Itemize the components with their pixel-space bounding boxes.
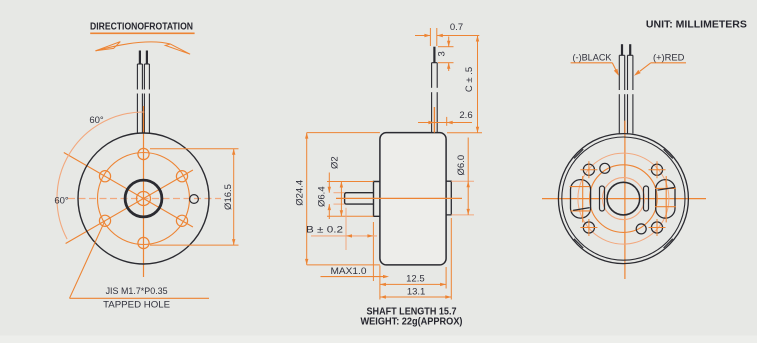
label C ± .5 [464,67,475,92]
dim B dimension line [311,234,377,237]
plain hole upper [600,163,610,173]
rear case outer circle [558,134,688,264]
dim Ø24.4 extension lines [307,133,380,265]
dim 2.6 dimension line [418,121,472,124]
dim Ø16.5 extension lines [150,149,239,245]
label 2.6 [459,110,472,121]
MAX1.0 leader line [321,275,390,278]
right oval lower bar [655,206,676,208]
label Ø16.5 [223,184,234,210]
dim 0.7 dimension line [415,34,479,37]
lead wire (side view) [432,47,438,133]
motor case outline circle (front) [78,133,209,264]
svg-text:JIS M1.7*P0.35: JIS M1.7*P0.35 [106,286,168,297]
dim 2.6 tick at case edge [446,117,448,126]
screw holes with center crosses [580,161,665,236]
dim 0.7 extension lines [430,28,436,46]
dim Ø2 extension lines [334,193,345,204]
svg-text:60°: 60° [89,115,104,126]
note shaft length [367,307,457,318]
rear hub (side view) [446,181,451,215]
svg-text:Ø2: Ø2 [330,156,341,169]
orange circle r34 (rear) [590,165,658,233]
label Ø6.0 [456,155,467,176]
note weight [361,316,463,327]
vent slot right of bearing [644,186,649,211]
dim 3 extension lines [438,47,454,63]
radial line 150-330 deg [64,153,193,228]
label 0.7 [450,22,463,33]
rim tab chords [574,149,673,248]
dim 12.5 dimension line [380,283,446,286]
horizontal centerline (rear view) [542,198,706,200]
svg-text:Ø6.4: Ø6.4 [316,186,327,207]
right oval brush wire [658,188,675,191]
left oval lower bar [571,210,591,212]
svg-text:12.5: 12.5 [406,274,425,285]
svg-text:B ± 0.2: B ± 0.2 [306,225,343,236]
dim Ø6.0 extension lines [451,181,474,215]
lead wire pair (rear view) [619,44,633,133]
svg-text:C ± .5: C ± .5 [464,67,475,92]
dim Ø6.4 extension lines [327,182,374,217]
bottom page strip [0,336,757,343]
dim Ø6.4 dimension line [340,182,343,217]
label (+)RED [653,53,685,64]
motor body (side view) [380,133,446,265]
bolt circle [98,153,190,245]
svg-text:TAPPED HOLE: TAPPED HOLE [103,300,170,311]
label 13.1 [407,287,426,298]
bottom extension lines [380,218,451,300]
svg-text:MAX1.0: MAX1.0 [331,266,367,277]
rear bearing circle [607,182,640,215]
dim 13.1 dimension line [380,295,451,298]
60-degree dimension arc [57,112,144,239]
dim Ø2 dimension line [328,173,331,220]
lead wire pair (front view) [137,51,149,134]
vertical centerline (rear view) [624,121,626,279]
label (-)BLACK [573,53,613,64]
svg-text:Ø24.4: Ø24.4 [294,180,305,206]
dim Ø16.5 dimension line [232,149,235,245]
six tapped holes on bolt circle [99,148,187,248]
svg-text:0.7: 0.7 [450,22,463,33]
right oval vertical centerline [665,176,667,222]
svg-text:WEIGHT: 22g(APPROX): WEIGHT: 22g(APPROX) [361,316,463,327]
dim C dimension line [476,36,479,133]
shaft circle [137,192,151,206]
dim Ø24.4 dimension line [305,133,308,265]
underline under direction-of-rotation title [90,32,194,34]
svg-text:3: 3 [437,51,448,56]
label Ø2 [330,156,341,169]
svg-text:2.6: 2.6 [459,110,472,121]
dim Ø6.0 dimension line [467,138,470,215]
radial line 210-30 deg [66,170,193,244]
svg-text:13.1: 13.1 [407,287,426,298]
label JIS M1.7*P0.35 [106,286,168,297]
svg-text:Ø16.5: Ø16.5 [223,184,234,210]
svg-text:60°: 60° [54,196,69,207]
bearing boss thick circle [125,180,162,217]
svg-text:(+)RED: (+)RED [653,53,685,64]
vertical centerline (front view) [143,106,145,277]
plain hole at 3 o'clock [190,195,199,204]
left oval vertical centerline [582,176,584,222]
left brush housing oval [571,180,591,219]
title: direction of rotation [90,20,193,32]
svg-text:(-)BLACK: (-)BLACK [573,53,613,64]
label 3 [437,51,448,56]
plain hole lower [636,224,646,234]
left oval brush wire [573,208,590,211]
label Ø6.4 [316,186,327,207]
rotation double-arrow arc [96,42,191,55]
dim C extension line bottom [447,132,482,134]
dim 3 dimension line [447,37,450,72]
front bearing boss (side view) [374,182,381,217]
label 12.5 [406,274,425,285]
horizontal centerline (side view) [336,197,462,199]
shaft (side view) [345,193,374,204]
unit note [646,19,747,31]
label 60 deg upper [89,115,104,126]
svg-text:DIRECTIONOFROTATION: DIRECTIONOFROTATION [90,20,193,32]
salmon bolt circle r45.5 (rear) [578,153,669,244]
leader to red wire [634,63,686,76]
right brush housing oval [656,180,675,219]
label 60 deg lower [54,196,69,207]
label MAX1.0 [331,266,367,277]
vent slot left of bearing [600,186,605,211]
horizontal centerline (front view) [68,198,221,200]
rear case inner ring circle [562,137,685,260]
leader line to tapped hole [70,221,210,298]
svg-text:Ø6.0: Ø6.0 [456,155,467,176]
label TAPPED HOLE [103,300,170,311]
svg-text:UNIT: MILLIMETERS: UNIT: MILLIMETERS [646,19,747,31]
left oval upper bar [570,186,590,188]
label Ø24.4 [294,180,305,206]
label B ± 0.2 [306,225,343,236]
dim B extension lines [346,208,373,281]
orange circle r21 (rear) [602,178,644,220]
wire centerline (side view) [433,107,435,133]
leader to black wire [571,63,619,76]
right oval upper bar [655,187,676,189]
